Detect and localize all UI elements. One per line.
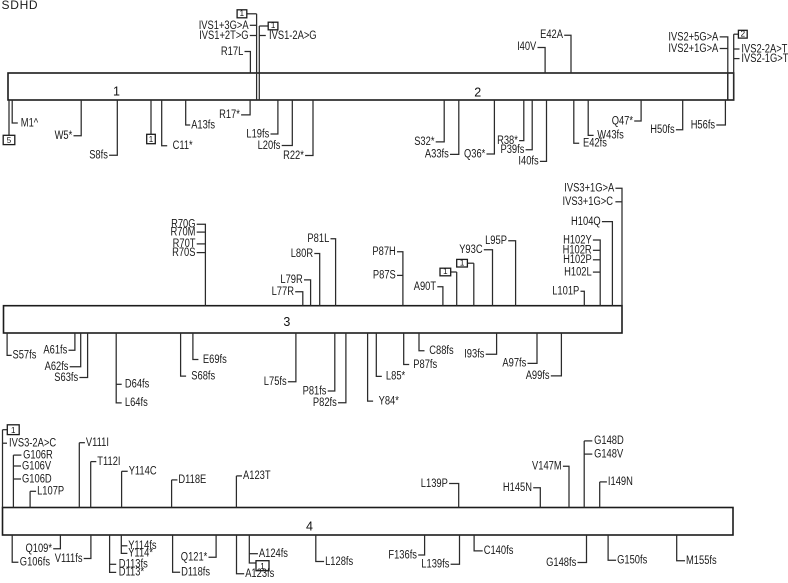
svg-text:Q47*: Q47* — [612, 115, 634, 127]
svg-text:L19fs: L19fs — [246, 128, 269, 140]
svg-text:L85*: L85* — [386, 371, 406, 383]
svg-text:V111I: V111I — [86, 437, 109, 449]
svg-text:E69fs: E69fs — [203, 354, 227, 366]
svg-text:Q121*: Q121* — [181, 552, 208, 564]
svg-text:H50fs: H50fs — [650, 124, 675, 136]
svg-text:L79R: L79R — [280, 274, 302, 286]
svg-text:G106fs: G106fs — [20, 557, 50, 569]
svg-text:V147M: V147M — [532, 461, 562, 473]
svg-text:IVS1+2T>G: IVS1+2T>G — [199, 30, 248, 42]
svg-text:IVS1-2A>G: IVS1-2A>G — [269, 30, 317, 42]
svg-text:R70S: R70S — [172, 247, 196, 259]
svg-text:M155fs: M155fs — [686, 555, 717, 567]
svg-text:IVS2+1G>A: IVS2+1G>A — [668, 43, 718, 55]
svg-text:P87S: P87S — [373, 270, 396, 282]
svg-text:L101P: L101P — [552, 286, 579, 298]
svg-text:E42A: E42A — [540, 29, 563, 41]
svg-text:R17*: R17* — [219, 109, 240, 121]
svg-text:1: 1 — [443, 267, 448, 276]
svg-text:R17L: R17L — [221, 46, 244, 58]
svg-text:SDHD: SDHD — [2, 0, 39, 12]
svg-text:H145N: H145N — [503, 482, 532, 494]
svg-text:P81L: P81L — [307, 233, 329, 245]
svg-text:L107P: L107P — [37, 486, 64, 498]
svg-text:D118fs: D118fs — [181, 567, 210, 578]
svg-text:2: 2 — [474, 85, 481, 99]
svg-text:G148V: G148V — [594, 448, 623, 460]
svg-text:A123T: A123T — [243, 470, 271, 482]
svg-text:S63fs: S63fs — [54, 372, 78, 384]
svg-text:4: 4 — [306, 520, 313, 534]
svg-text:C88fs: C88fs — [429, 345, 454, 357]
svg-text:V111fs: V111fs — [55, 553, 83, 565]
svg-text:Y114*: Y114* — [128, 548, 153, 560]
svg-text:1: 1 — [149, 135, 154, 144]
svg-text:P81fs: P81fs — [303, 385, 327, 397]
svg-text:1: 1 — [11, 426, 16, 435]
svg-text:L139fs: L139fs — [421, 559, 449, 571]
svg-text:3: 3 — [283, 315, 290, 329]
svg-text:Q36*: Q36* — [464, 148, 486, 160]
svg-text:L77R: L77R — [272, 286, 294, 298]
svg-text:A99fs: A99fs — [526, 370, 550, 382]
svg-text:I93fs: I93fs — [464, 349, 484, 361]
svg-text:IVS3+1G>C: IVS3+1G>C — [563, 196, 614, 208]
svg-text:F136fs: F136fs — [388, 549, 417, 561]
svg-text:T112I: T112I — [97, 456, 120, 468]
svg-text:I149N: I149N — [608, 476, 633, 488]
svg-text:A13fs: A13fs — [191, 119, 215, 131]
svg-text:G106V: G106V — [22, 460, 51, 472]
svg-text:S57fs: S57fs — [13, 350, 37, 362]
svg-text:I40fs: I40fs — [518, 156, 538, 168]
svg-text:D113*: D113* — [119, 567, 145, 578]
svg-text:A97fs: A97fs — [502, 358, 526, 370]
svg-text:P87H: P87H — [372, 246, 395, 258]
svg-text:H56fs: H56fs — [691, 119, 716, 131]
svg-text:L139P: L139P — [421, 478, 448, 490]
svg-text:A123fs: A123fs — [245, 568, 274, 578]
svg-text:M1^: M1^ — [21, 117, 39, 129]
svg-text:I40V: I40V — [517, 41, 536, 53]
svg-text:S68fs: S68fs — [191, 370, 215, 382]
svg-text:IVS3-2A>C: IVS3-2A>C — [9, 438, 56, 450]
svg-text:P87fs: P87fs — [413, 359, 437, 371]
svg-text:L80R: L80R — [291, 248, 313, 260]
svg-text:L20fs: L20fs — [258, 140, 281, 152]
svg-text:D118E: D118E — [178, 474, 206, 486]
svg-text:G150fs: G150fs — [617, 555, 647, 567]
svg-text:G148fs: G148fs — [546, 557, 576, 569]
svg-text:A90T: A90T — [414, 281, 436, 293]
svg-text:G148D: G148D — [594, 435, 624, 447]
svg-text:1: 1 — [113, 85, 120, 99]
svg-text:L64fs: L64fs — [125, 397, 148, 409]
svg-text:W43fs: W43fs — [597, 130, 624, 142]
svg-text:1: 1 — [271, 21, 276, 30]
svg-text:R70M: R70M — [171, 226, 196, 238]
svg-text:Q109*: Q109* — [26, 543, 53, 555]
svg-text:1: 1 — [460, 258, 465, 267]
svg-text:A61fs: A61fs — [43, 345, 67, 357]
svg-text:5: 5 — [7, 136, 12, 145]
svg-text:A33fs: A33fs — [425, 149, 449, 161]
svg-text:C140fs: C140fs — [484, 545, 514, 557]
svg-text:H104Q: H104Q — [571, 216, 601, 228]
svg-text:C11*: C11* — [173, 140, 194, 152]
svg-text:G106D: G106D — [22, 473, 52, 485]
svg-text:IVS3+1G>A: IVS3+1G>A — [564, 183, 614, 195]
svg-text:L95P: L95P — [485, 235, 507, 247]
svg-text:L75fs: L75fs — [264, 376, 287, 388]
svg-text:S32*: S32* — [414, 136, 435, 148]
svg-text:Y84*: Y84* — [379, 395, 400, 407]
svg-text:A124fs: A124fs — [259, 548, 288, 560]
svg-text:Y93C: Y93C — [459, 244, 482, 256]
svg-text:IVS2+5G>A: IVS2+5G>A — [668, 32, 718, 44]
svg-text:H102L: H102L — [564, 266, 592, 278]
svg-text:S8fs: S8fs — [89, 150, 108, 162]
svg-text:P82fs: P82fs — [313, 397, 337, 409]
svg-text:P39fs: P39fs — [501, 144, 525, 156]
svg-text:D64fs: D64fs — [125, 379, 150, 391]
svg-text:2: 2 — [741, 30, 746, 39]
svg-text:IVS2-1G>T: IVS2-1G>T — [741, 53, 788, 65]
svg-text:W5*: W5* — [55, 130, 73, 142]
svg-text:Y114C: Y114C — [129, 466, 157, 478]
svg-text:H102P: H102P — [563, 254, 592, 266]
svg-text:1: 1 — [240, 9, 245, 18]
svg-text:R22*: R22* — [283, 150, 304, 162]
svg-text:L128fs: L128fs — [325, 556, 353, 568]
